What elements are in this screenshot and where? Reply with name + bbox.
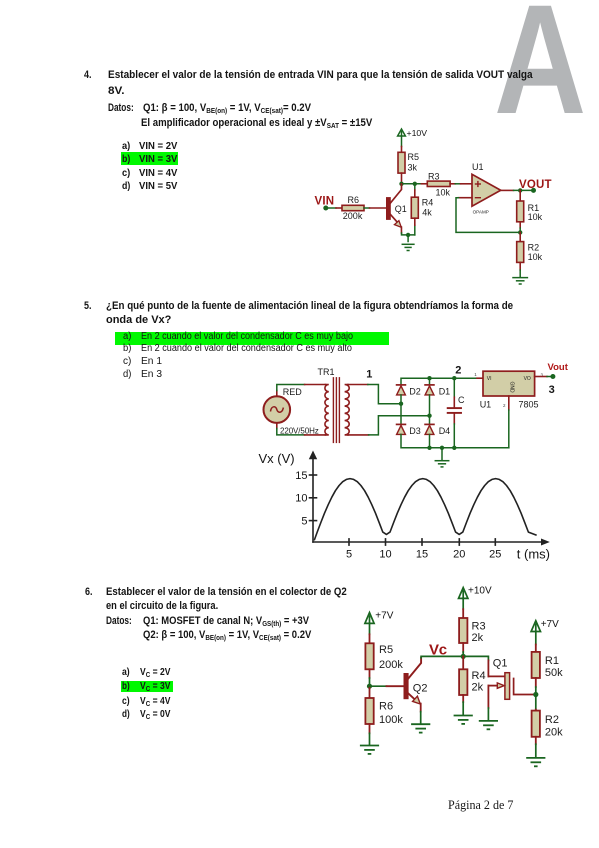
svg-text:OPAMP: OPAMP [473, 209, 489, 214]
resistor R6 [365, 686, 403, 733]
question 4 options [122, 142, 130, 152]
capacitor C [448, 378, 465, 448]
answer highlight [121, 681, 173, 692]
question 6 number [85, 587, 92, 598]
wire U1 ground pin [508, 396, 510, 410]
question 6 line 1 [106, 587, 347, 598]
svg-text:R3: R3 [428, 171, 440, 181]
node VOUT terminal [531, 188, 536, 193]
resistor R2 [517, 232, 543, 270]
question 4 number [84, 70, 91, 81]
svg-text:10: 10 [379, 549, 391, 561]
wire V+ to R5 [401, 136, 403, 147]
op-amp U1 [472, 162, 501, 214]
wire V+ to R1 [535, 632, 537, 645]
diode D1 [425, 378, 450, 416]
diode D3 [397, 424, 421, 436]
circuit for question 6 [353, 580, 575, 776]
svg-text:10k: 10k [528, 212, 543, 222]
svg-text:200k: 200k [379, 659, 403, 671]
question 6 line 2 [106, 601, 218, 612]
wire Q1 source to ground [487, 708, 489, 720]
question 4 datos [108, 103, 134, 114]
svg-text:2k: 2k [472, 681, 484, 693]
svg-text:3: 3 [549, 384, 555, 396]
transistor Q1 (MOSFET) [488, 657, 533, 708]
svg-text:D4: D4 [439, 426, 451, 436]
svg-text:10: 10 [295, 493, 307, 505]
resistor R4 [459, 656, 485, 702]
wire top rail [401, 378, 477, 385]
svg-text:R1: R1 [545, 655, 559, 667]
svg-text:10k: 10k [528, 252, 543, 262]
diode D2 [397, 385, 421, 396]
svg-text:R2: R2 [545, 714, 559, 726]
question 6 datos [106, 616, 132, 627]
svg-text:U1: U1 [480, 400, 492, 410]
node output junction [518, 188, 522, 192]
wire rail to U1 input [477, 377, 483, 379]
wire secondary top to bridge [348, 384, 368, 386]
wire R6 to ground [369, 733, 371, 744]
question 5 number [84, 301, 91, 312]
node divider [533, 692, 538, 697]
ground below R2 [527, 758, 544, 766]
question 5 line 2 [106, 315, 171, 326]
resistor R6 [342, 195, 364, 221]
circuit for question 5 [256, 358, 575, 565]
svg-text:R5: R5 [379, 644, 393, 656]
transistor Q2 [404, 658, 428, 712]
power +7V left [365, 613, 374, 624]
wire op-amp output [501, 189, 514, 191]
svg-text:D2: D2 [409, 386, 421, 396]
svg-text:1: 1 [474, 372, 477, 377]
power +10V [398, 129, 406, 136]
page footer [448, 799, 513, 812]
power +7V right [531, 621, 540, 632]
svg-text:Q2: Q2 [413, 682, 428, 694]
wire base node to Q2 [370, 685, 387, 687]
ground below R6 [361, 746, 378, 754]
svg-text:7805: 7805 [519, 400, 539, 410]
wire V+ to R5 [369, 623, 371, 634]
svg-text:20: 20 [453, 549, 465, 561]
node emitter junction [406, 233, 410, 237]
svg-text:5: 5 [346, 549, 352, 561]
svg-text:200k: 200k [343, 211, 363, 221]
ground below Q2 [412, 724, 429, 732]
ground below R4 [455, 716, 472, 724]
wire source top to primary [276, 391, 278, 397]
node rail C [452, 446, 456, 450]
wire R2 to ground [535, 744, 537, 756]
wire inverting input feedback [456, 198, 520, 233]
svg-text:R6: R6 [379, 700, 393, 712]
svg-text:2k: 2k [472, 632, 484, 644]
svg-text:50k: 50k [545, 667, 563, 679]
ground below R2 [513, 278, 527, 284]
svg-text:R4: R4 [472, 670, 486, 682]
x tick labels [346, 549, 501, 561]
svg-text:R4: R4 [422, 197, 434, 207]
svg-text:+7V: +7V [375, 611, 393, 622]
answer highlight [121, 152, 178, 165]
svg-text:Q1: Q1 [395, 204, 407, 214]
wire R3 to Vc node [462, 652, 464, 656]
svg-text:1: 1 [366, 369, 372, 381]
ground below Q1 [480, 721, 497, 729]
svg-text:U1: U1 [472, 162, 484, 172]
resistor R3 [421, 171, 455, 197]
question 6 options [122, 668, 130, 678]
svg-text:t (ms): t (ms) [517, 546, 550, 561]
answer highlight [115, 332, 389, 346]
wire to ground [407, 235, 409, 242]
wire R5 to base node [369, 678, 371, 686]
node Vc [461, 654, 466, 659]
svg-text:25: 25 [489, 549, 501, 561]
wire node to D3 [400, 404, 402, 425]
resistor R1 [532, 645, 564, 688]
wire R3 to op-amp [455, 183, 460, 185]
question 5 line 1 [106, 301, 513, 312]
node feedback junction [518, 230, 522, 234]
wire bottom rail [401, 434, 509, 447]
svg-text:15: 15 [295, 470, 307, 482]
node R4 branch [413, 182, 417, 186]
svg-text:R3: R3 [472, 620, 486, 632]
wire R1 to node [535, 687, 537, 695]
node VIN terminal [323, 206, 328, 211]
svg-text:5: 5 [301, 516, 307, 528]
wire ground stem [441, 448, 443, 460]
wire R2 to ground [519, 270, 521, 277]
wire collector node to R4 node [402, 183, 422, 185]
svg-text:3k: 3k [408, 163, 418, 173]
svg-text:+7V: +7V [541, 619, 559, 630]
resistor R3 [459, 609, 485, 652]
wire R6 to Q1 base [364, 207, 370, 209]
svg-text:20k: 20k [545, 727, 563, 739]
resistor R5 [365, 634, 403, 678]
resistor R4 [411, 184, 433, 225]
svg-text:VIN: VIN [315, 196, 335, 208]
svg-text:TR1: TR1 [318, 367, 335, 377]
svg-text:15: 15 [416, 549, 428, 561]
svg-text:Vc: Vc [429, 641, 447, 658]
svg-text:Q1: Q1 [493, 657, 508, 669]
svg-text:2: 2 [455, 364, 461, 376]
svg-text:D3: D3 [409, 426, 421, 436]
svg-text:Vx (V): Vx (V) [259, 451, 295, 466]
svg-text:VOUT: VOUT [519, 179, 552, 191]
diode D4 [425, 416, 450, 436]
node Vout terminal [550, 374, 555, 379]
svg-text:GND: GND [509, 382, 515, 394]
waveform x-axis [313, 539, 542, 545]
svg-text:Vout: Vout [548, 362, 569, 373]
ground below Q1 [402, 244, 414, 250]
transistor Q1 [386, 184, 406, 233]
wire U1 output [535, 376, 547, 378]
resistor R2 [532, 695, 564, 745]
svg-text:+10V: +10V [468, 586, 492, 597]
waveform rectified sine curve [315, 479, 536, 540]
wire V+ to R3 [462, 598, 464, 609]
waveform y-axis [310, 458, 317, 542]
node D1-D4 junction [427, 414, 431, 418]
wire Q2 emitter to ground [420, 712, 422, 723]
node D2-D3 junction [399, 402, 403, 406]
wire VIN to R6 [326, 207, 336, 209]
question 4 line 1 [108, 70, 533, 81]
node collector junction [399, 182, 403, 186]
node top rail D1 [427, 376, 431, 380]
transformer TR1 [318, 367, 350, 443]
ground bridge [435, 461, 448, 467]
svg-text:R5: R5 [408, 152, 420, 162]
resistor R5 [398, 147, 419, 184]
wire emitter to ground rail [402, 233, 415, 235]
wire D4 to rail [429, 434, 431, 447]
wire R4 to ground [462, 702, 464, 714]
node top rail C [452, 376, 456, 380]
circuit for question 4 [300, 124, 562, 290]
resistor R1 [517, 190, 543, 228]
node rail ground [440, 446, 444, 450]
node base divider [367, 684, 372, 689]
svg-text:+10V: +10V [407, 128, 428, 138]
AC source RED [264, 387, 319, 436]
wire R1 to R2 node [519, 228, 521, 232]
regulator U1 7805 [474, 371, 543, 410]
node rail D4 [427, 446, 431, 450]
svg-text:100k: 100k [379, 714, 403, 726]
svg-text:RED: RED [283, 387, 303, 397]
svg-text:VI: VI [487, 376, 492, 382]
svg-text:VO: VO [524, 376, 531, 382]
wire secondary bottom to bridge [348, 434, 369, 436]
svg-text:2: 2 [503, 403, 506, 408]
watermark letter A [494, 0, 586, 138]
power +10V [459, 588, 468, 599]
svg-text:C: C [458, 395, 465, 405]
svg-text:4k: 4k [422, 207, 432, 217]
wire D2 to node [400, 395, 402, 404]
y tick labels [295, 470, 307, 528]
wire R4 bottom [414, 225, 416, 235]
svg-text:10k: 10k [436, 187, 451, 197]
question 4 line 2 [108, 86, 124, 97]
svg-text:R6: R6 [348, 195, 360, 205]
wire Vc row [421, 656, 488, 660]
wire source bottom to primary [276, 423, 278, 429]
svg-text:D1: D1 [439, 386, 451, 396]
